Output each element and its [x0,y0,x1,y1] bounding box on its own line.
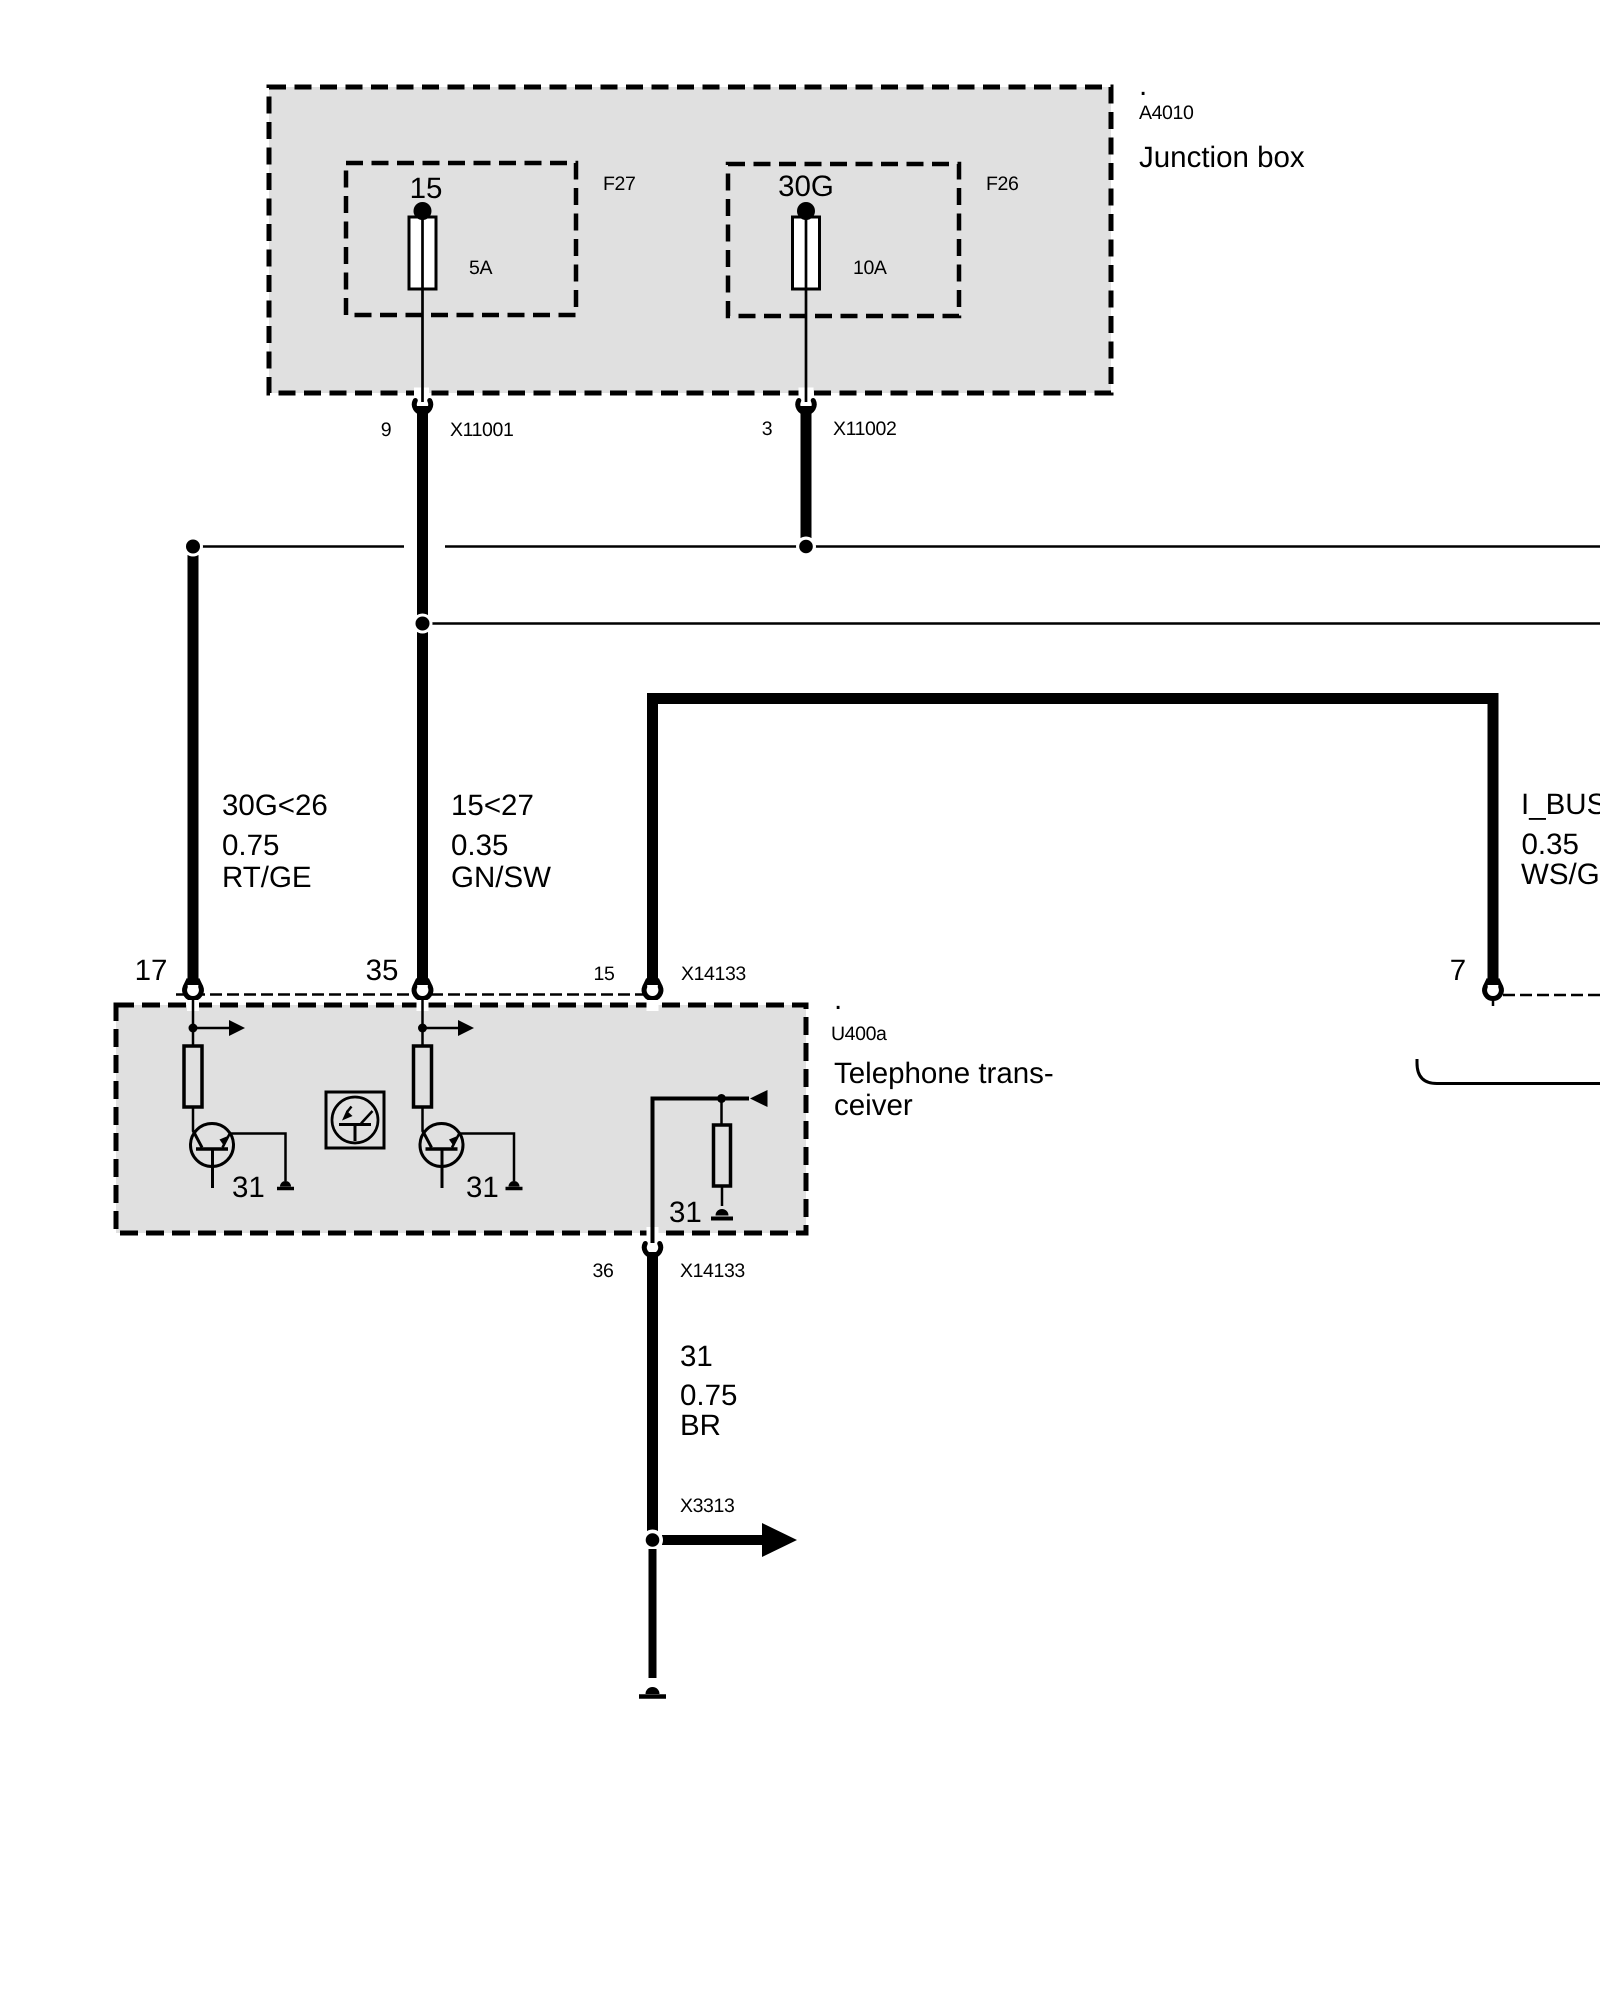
wire: horizontal line 1 (terminal 30G distribution) [193,545,1600,548]
svg-text:31: 31 [232,1171,265,1204]
svg-text:F27: F27 [603,173,635,195]
resistor R1 [184,1046,202,1107]
svg-text:X3313: X3313 [680,1495,734,1517]
internal wire pin 35 [421,996,424,1046]
connector pin 7 (I_BUS) [1485,979,1502,1006]
rounded corner of adjacent module [1417,1059,1600,1084]
internal wire pin 36 riser [653,1099,750,1244]
svg-text:X11001: X11001 [450,419,513,441]
connector pin 17 of X14133 [185,979,202,999]
ground pin 31 middle [506,1181,523,1189]
svg-text:9: 9 [381,419,391,441]
svg-text:15: 15 [410,172,443,205]
svg-text:U400a: U400a [831,1023,887,1045]
label Telephone transceiver [834,1057,1054,1122]
svg-text:36: 36 [593,1260,614,1282]
transistor Q1 [191,1124,234,1189]
wire node to resistor R3 [720,1099,723,1127]
ground pin 31 left [277,1181,294,1189]
wire: horizontal line 2 (terminal 15 distribution) [423,622,1600,625]
wire casing at junction box border under F26 [799,388,814,399]
svg-text:X14133: X14133 [681,963,746,985]
ground terminal [639,1687,666,1696]
svg-text:30G: 30G [778,170,834,203]
ground pin 31 right [711,1209,733,1219]
antenna symbol [750,1090,768,1107]
internal node antenna branch [717,1094,726,1103]
dashed connector line right of pin 7 [1503,994,1600,997]
svg-text:3: 3 [762,418,772,440]
svg-text:0.75: 0.75 [680,1379,737,1412]
svg-text:Telephone trans-: Telephone trans- [834,1057,1054,1090]
wire Q2 emitter to ground [459,1134,514,1182]
connector pin 15 of X14133 [644,979,661,1006]
svg-text:7: 7 [1450,954,1466,987]
wire casing at box top, pin 35 [417,1000,429,1011]
svg-text:.: . [834,983,842,1016]
transistor Q2 [420,1124,463,1189]
svg-text:17: 17 [135,954,168,987]
splice arrow X3313 [662,1523,797,1557]
wire resistor to transistor Q2 [421,1107,424,1131]
connector X11002 pin 3 [798,401,814,413]
electronic module symbol U1 (boxed transistor) [326,1092,384,1148]
svg-text:A4010: A4010 [1139,102,1194,124]
telephone transceiver U400a box [116,1005,806,1233]
svg-text:5A: 5A [469,257,492,279]
svg-text:GN/SW: GN/SW [451,861,551,894]
fuse F26 (10A) [793,202,820,402]
junction node X3313 [642,1530,663,1551]
wire Q1 emitter to ground [230,1134,286,1182]
svg-text:WS/GE: WS/GE [1521,858,1600,891]
wire casing at box top, pin 15 [647,1000,659,1011]
wire: I_BUS from pin 15 up over to pin 7 [653,699,1494,986]
wire casing at box bottom, pin 36 [647,1227,659,1239]
connector X11001 pin 9 [414,401,430,413]
svg-text:15<27: 15<27 [451,789,534,822]
connector pin 36 of X14133 [644,1244,660,1256]
svg-text:0.75: 0.75 [222,829,279,862]
svg-text:31: 31 [680,1340,713,1373]
svg-text:0.35: 0.35 [451,829,508,862]
wire casing at box top, pin 17 [187,1000,199,1011]
cup casing pin 35 [417,986,429,998]
svg-text:30G<26: 30G<26 [222,789,328,822]
junction node X11002/line 1 [796,537,816,557]
svg-text:BR: BR [680,1409,721,1442]
svg-text:ceiver: ceiver [834,1089,913,1122]
svg-text:31: 31 [466,1171,499,1204]
svg-text:Junction box: Junction box [1139,141,1305,174]
internal arrow pin 35 branch [423,1020,475,1036]
svg-text:31: 31 [669,1196,702,1229]
fuse F27 (5A) [409,202,436,402]
internal node pin 35 branch [418,1024,427,1033]
wire: ground lead below X3313 [649,1549,657,1678]
fuse box F27 [346,163,576,315]
fuse box F26 [728,164,959,316]
node at left end of line 1 [183,537,203,557]
crossover bridge casing [404,538,445,554]
wire: ground lead 31 from pin 36 [647,1252,658,1540]
svg-text:I_BUS: I_BUS [1521,788,1600,821]
svg-text:.: . [1139,69,1147,102]
wire: 30G feed from X11002 down to node [801,406,812,546]
internal node pin 17 branch [189,1024,198,1033]
wire R3 to ground [721,1186,724,1206]
wire: 30G drop to pin 17 [188,546,199,985]
svg-text:X11002: X11002 [833,418,896,440]
svg-text:10A: 10A [853,257,887,279]
resistor R2 [414,1046,432,1107]
svg-text:0.35: 0.35 [1522,828,1579,861]
junction box A4010 [269,87,1111,393]
wire casing at junction box border under F27 [414,388,429,399]
cup casing pin 15 [647,986,659,998]
resistor R3 [714,1125,731,1186]
svg-text:35: 35 [366,954,399,987]
internal wire pin 17 [192,996,195,1046]
connector pin 35 of X14133 [414,979,431,999]
wire: 15 feed from X11001 down to pin 35 [417,406,428,985]
internal arrow pin 17 branch [193,1020,245,1036]
cup casing pin 17 [187,986,199,998]
svg-text:RT/GE: RT/GE [222,861,312,894]
wire resistor to transistor Q1 [192,1107,195,1131]
svg-text:F26: F26 [986,173,1018,195]
svg-text:X14133: X14133 [680,1260,745,1282]
connector line X14133 (dashed) [176,993,648,996]
svg-text:15: 15 [594,963,615,985]
junction node on 15 feed [413,614,433,634]
